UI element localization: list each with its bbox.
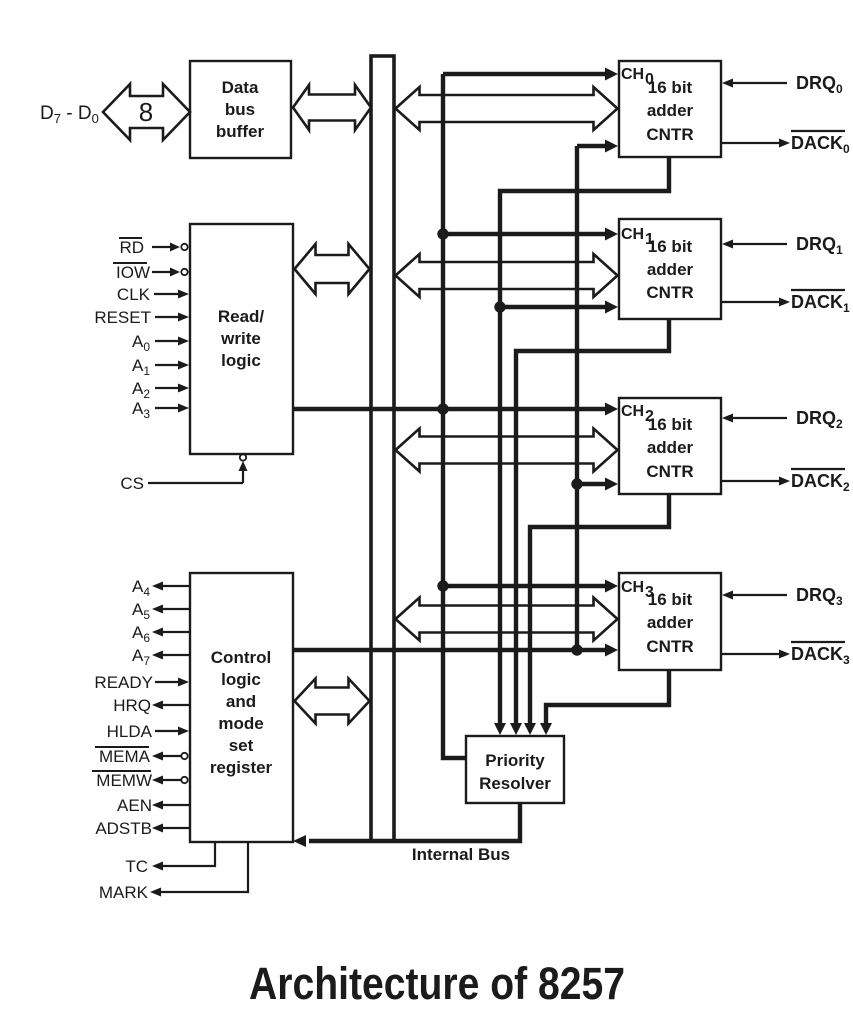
svg-text:buffer: buffer — [216, 122, 265, 141]
pin MARK — [99, 842, 248, 902]
junction dot CH3 bottom — [571, 644, 582, 655]
wire: CH0 to priority resolver chain — [500, 158, 669, 724]
pin A0 — [132, 332, 189, 354]
double arrow bus to CH3 — [396, 598, 618, 641]
svg-text:Architecture of 8257: Architecture of 8257 — [249, 958, 625, 1009]
svg-text:CH: CH — [621, 579, 644, 596]
svg-text:IOW: IOW — [116, 263, 150, 282]
pin DACK3 — [722, 642, 850, 667]
svg-text:ADSTB: ADSTB — [95, 819, 152, 838]
svg-text:DACK1: DACK1 — [791, 292, 850, 315]
svg-text:MEMA: MEMA — [99, 747, 151, 766]
block: channel CH3 16 bit adder CNTR — [619, 573, 721, 670]
pin READY — [94, 673, 189, 692]
pin A1 — [132, 356, 189, 378]
wire: DACK vertical trunk x=577 — [575, 146, 579, 650]
svg-text:DRQ2: DRQ2 — [796, 408, 843, 431]
svg-text:8: 8 — [139, 97, 153, 127]
wire: CH0 bottom line — [577, 144, 607, 148]
svg-text:CH: CH — [621, 226, 644, 243]
svg-text:CH: CH — [621, 66, 644, 83]
double arrow bus to CH2 — [396, 429, 618, 472]
internal bus rectangle — [371, 56, 394, 841]
svg-text:CNTR: CNTR — [646, 125, 693, 144]
block: Priority Resolver — [466, 736, 564, 803]
pin MEMA — [95, 747, 188, 766]
svg-text:16 bit: 16 bit — [648, 415, 693, 434]
data bus double arrow with 8 — [103, 84, 190, 140]
svg-text:adder: adder — [647, 260, 694, 279]
svg-text:write: write — [220, 329, 261, 348]
pin A2 — [132, 379, 189, 401]
wire: CH1 to priority resolver chain — [516, 319, 669, 724]
svg-text:16 bit: 16 bit — [648, 590, 693, 609]
svg-text:Read/: Read/ — [218, 307, 265, 326]
junction dot CH2 bottom — [571, 478, 582, 489]
svg-text:adder: adder — [647, 613, 694, 632]
pin A4 — [132, 577, 190, 599]
svg-text:mode: mode — [218, 714, 263, 733]
pin TC — [125, 842, 215, 876]
svg-text:HLDA: HLDA — [107, 722, 153, 741]
pin IOW — [113, 263, 188, 282]
svg-text:CLK: CLK — [117, 285, 151, 304]
wire: CH2 bottom line — [577, 482, 607, 486]
svg-text:Control: Control — [211, 648, 271, 667]
junction dot CH3 top — [437, 580, 448, 591]
double arrow buffer to bus — [293, 85, 371, 130]
wire: CH0 top request line — [443, 72, 607, 76]
svg-text:Priority: Priority — [485, 751, 545, 770]
pin ADSTB — [95, 819, 190, 838]
svg-text:Resolver: Resolver — [479, 774, 551, 793]
block: channel CH2 16 bit adder CNTR — [619, 398, 721, 494]
wire: DRQ vertical trunk x=443 — [443, 74, 466, 758]
svg-text:Data: Data — [222, 78, 259, 97]
svg-text:DRQ1: DRQ1 — [796, 234, 843, 257]
wire: CH1 bottom line — [500, 305, 607, 309]
svg-text:Internal Bus: Internal Bus — [412, 845, 510, 864]
wire: CH2 to priority resolver chain — [530, 494, 669, 724]
pin HLDA — [107, 722, 189, 741]
svg-text:RESET: RESET — [94, 308, 151, 327]
pin DRQ3 — [722, 585, 843, 608]
pin A3 — [132, 399, 189, 421]
pin HRQ — [113, 696, 190, 715]
svg-text:logic: logic — [221, 351, 261, 370]
pin DRQ2 — [722, 408, 843, 431]
pin DACK1 — [722, 290, 850, 315]
wire: CH3 top request line — [443, 584, 607, 588]
svg-text:DRQ3: DRQ3 — [796, 585, 843, 608]
block: Control logic and mode set register — [190, 573, 293, 842]
svg-text:DACK2: DACK2 — [791, 471, 850, 494]
svg-text:READY: READY — [94, 673, 153, 692]
svg-text:CS: CS — [120, 474, 144, 493]
pin DRQ1 — [722, 234, 843, 257]
pin DACK2 — [722, 469, 850, 494]
svg-text:CNTR: CNTR — [646, 462, 693, 481]
svg-text:MEMW: MEMW — [96, 771, 152, 790]
svg-text:and: and — [226, 692, 256, 711]
double arrow control logic to bus — [295, 679, 370, 724]
svg-text:adder: adder — [647, 438, 694, 457]
svg-text:CNTR: CNTR — [646, 283, 693, 302]
double arrow bus to CH1 — [396, 254, 618, 297]
wire: read/write logic to CH2 top line — [293, 407, 607, 411]
pin DRQ0 — [722, 73, 843, 96]
svg-text:16 bit: 16 bit — [648, 78, 693, 97]
junction dot CH1 top — [437, 228, 448, 239]
pin A5 — [132, 600, 190, 622]
svg-text:CNTR: CNTR — [646, 637, 693, 656]
svg-text:adder: adder — [647, 101, 694, 120]
block: channel CH1 16 bit adder CNTR — [619, 219, 721, 319]
junction dot CH2 top — [437, 403, 448, 414]
double arrow bus to CH0 — [396, 87, 618, 130]
block: Data bus buffer — [190, 61, 291, 158]
wire: CH1 top request line — [443, 232, 607, 236]
pin CS — [120, 454, 247, 493]
pin DACK0 — [722, 131, 850, 156]
pin MEMW — [92, 771, 188, 790]
svg-text:DACK3: DACK3 — [791, 644, 850, 667]
pin A6 — [132, 623, 190, 645]
double arrow read/write to bus — [295, 244, 370, 294]
svg-text:RD: RD — [119, 238, 144, 257]
pin CLK — [117, 285, 189, 304]
svg-text:TC: TC — [125, 857, 148, 876]
pin A7 — [132, 646, 190, 668]
wire: internal bus feedback to control logic — [309, 803, 520, 841]
svg-text:logic: logic — [221, 670, 261, 689]
block: channel CH0 16 bit adder CNTR — [619, 61, 721, 157]
svg-text:set: set — [229, 736, 254, 755]
svg-text:DRQ0: DRQ0 — [796, 73, 843, 96]
svg-text:CH: CH — [621, 403, 644, 420]
wire: CH3 to priority resolver chain — [546, 670, 669, 724]
svg-text:HRQ: HRQ — [113, 696, 151, 715]
pin AEN — [117, 796, 190, 815]
svg-text:bus: bus — [225, 100, 255, 119]
wire: control logic to CH3 bottom line — [293, 648, 607, 652]
block: Read/write logic — [190, 224, 293, 454]
svg-text:DACK0: DACK0 — [791, 133, 850, 156]
svg-text:AEN: AEN — [117, 796, 152, 815]
pin RESET — [94, 308, 189, 327]
svg-text:register: register — [210, 758, 273, 777]
svg-text:16 bit: 16 bit — [648, 237, 693, 256]
svg-text:D7 - D0: D7 - D0 — [40, 103, 99, 126]
pin RD — [119, 238, 188, 257]
svg-text:MARK: MARK — [99, 883, 149, 902]
junction dot CH1 bottom — [494, 301, 505, 312]
